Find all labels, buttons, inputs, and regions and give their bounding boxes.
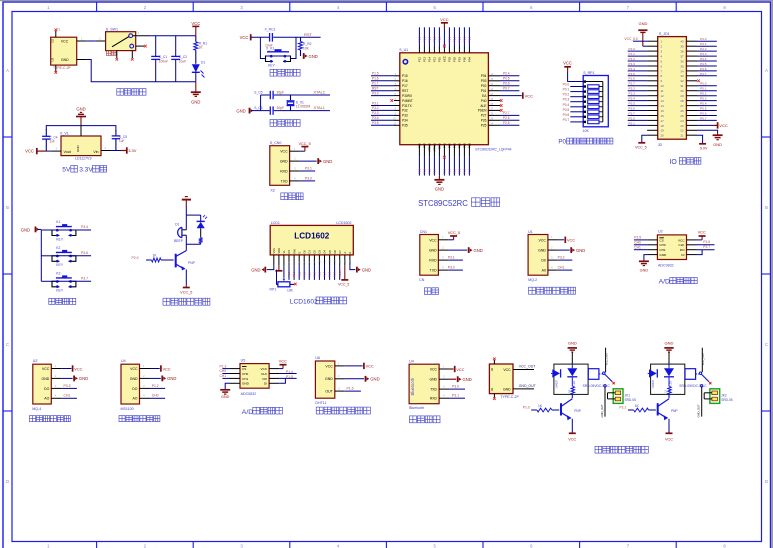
svg-text:GND: GND (576, 248, 585, 253)
regulator GND pin to rail (80, 126, 82, 136)
svg-text:P33: P33 (402, 114, 408, 118)
svg-text:RP1: RP1 (270, 288, 277, 292)
relay coil resistor JK1 (568, 387, 575, 395)
ground GND IO right (713, 134, 723, 147)
module label IO拓展口 (670, 158, 701, 166)
DHT11 pin stubs (335, 361, 345, 391)
svg-text:P1.2: P1.2 (463, 36, 467, 42)
svg-text:P5.6: P5.6 (700, 111, 707, 115)
svg-text:RST: RST (402, 89, 408, 93)
crystal S_X1 (287, 95, 311, 111)
svg-text:P5.1: P5.1 (700, 87, 707, 91)
wire methane GND (61, 377, 72, 379)
wire right drop to key (290, 37, 296, 58)
capacitor C_C4 (42, 129, 58, 151)
svg-text:P16: P16 (402, 79, 408, 83)
wire GND net bottom rail (77, 60, 196, 82)
ground GND download (318, 158, 332, 164)
svg-text:P0.7: P0.7 (503, 87, 510, 91)
svg-text:29: 29 (680, 94, 684, 98)
wire methane AO (61, 394, 77, 399)
svg-text:P1.2: P1.2 (433, 36, 437, 42)
bluetooth pin stubs (439, 364, 450, 398)
push button K1 (41, 220, 91, 241)
wire alarm bottom node (186, 244, 200, 250)
svg-text:P5.5: P5.5 (700, 106, 707, 110)
svg-text:P1.2: P1.2 (448, 36, 452, 42)
LCD pin names and stubs (272, 248, 352, 266)
svg-text:P23: P23 (463, 143, 467, 148)
svg-text:KEY: KEY (56, 237, 64, 241)
svg-text:XTAL2: XTAL2 (314, 91, 325, 95)
wire J1 VCC to switch (77, 37, 106, 42)
relay coil resistor JK2 (665, 387, 672, 395)
svg-text:CH1: CH1 (220, 374, 227, 378)
svg-text:P2.0: P2.0 (453, 168, 457, 174)
svg-text:VCC: VCC (279, 359, 287, 363)
wire VCC to Vout (37, 147, 61, 152)
svg-text:P4.3: P4.3 (700, 52, 707, 56)
ground GND relay top JK2 (664, 341, 673, 365)
svg-text:D7: D7 (338, 250, 342, 254)
sensor U1 MQ-2 (528, 230, 548, 282)
svg-text:P02: P02 (481, 84, 487, 88)
ground GND LCD right (357, 267, 371, 273)
svg-text:P1.4: P1.4 (308, 271, 311, 277)
wire alarm trunk to buzzer (185, 215, 187, 230)
svg-text:P0.7: P0.7 (563, 118, 570, 122)
svg-text:P1.5: P1.5 (314, 271, 317, 277)
connector S_CN1 下载口 (270, 141, 290, 192)
svg-text:P00: P00 (463, 57, 467, 62)
svg-text:P0.3: P0.3 (563, 98, 570, 102)
svg-text:P37: P37 (423, 143, 427, 148)
MCU right pin stubs and names (478, 73, 500, 128)
wire coil to collector JK1 (571, 394, 573, 398)
module label LCD1602显示模块 (290, 297, 347, 306)
svg-text:RXD: RXD (430, 397, 438, 401)
svg-text:CH1: CH1 (634, 245, 641, 249)
svg-text:CH0: CH0 (659, 243, 665, 247)
svg-text:S_C6: S_C6 (254, 106, 262, 110)
svg-text:P5.2: P5.2 (700, 92, 707, 96)
wire row20 to VCC_5 bottom (635, 135, 647, 149)
svg-text:P2.6: P2.6 (503, 116, 510, 120)
svg-text:GND: GND (659, 253, 667, 257)
svg-text:P36: P36 (418, 143, 422, 148)
module label A/D转换电路 bottom (242, 407, 283, 416)
svg-text:VCC_5: VCC_5 (448, 231, 460, 235)
svg-text:P1.2: P1.2 (428, 36, 432, 42)
svg-text:XTAL1: XTAL1 (314, 106, 325, 110)
svg-text:P2.5: P2.5 (634, 236, 641, 240)
svg-text:U3: U3 (51, 57, 55, 61)
svg-text:P2.6: P2.6 (703, 240, 710, 244)
svg-text:10K: 10K (287, 289, 294, 293)
svg-text:CLK: CLK (261, 372, 268, 376)
module label 温湿度检测模块 (316, 407, 370, 414)
svg-text:17: 17 (661, 119, 665, 123)
svg-text:P3.1: P3.1 (372, 101, 379, 105)
svg-text:CH1: CH1 (558, 266, 565, 270)
svg-text:P2.5: P2.5 (503, 121, 510, 125)
wire crystal left link (260, 95, 262, 111)
svg-text:P3.7: P3.7 (629, 111, 636, 115)
svg-text:GND: GND (79, 376, 88, 381)
svg-text:VCC: VCC (430, 367, 438, 371)
svg-text:P01: P01 (481, 89, 487, 93)
svg-text:U3: U3 (33, 359, 38, 363)
connector CN1 serial (419, 230, 438, 282)
no-ERC marker top pin6 (443, 45, 446, 48)
transistor PNP relay JK1 (561, 399, 581, 421)
power port VCC_5 serial (448, 231, 460, 240)
svg-text:GND: GND (130, 377, 138, 381)
svg-text:U5: U5 (241, 358, 246, 362)
push button X_K1 (266, 46, 291, 67)
svg-text:U1: U1 (528, 230, 533, 234)
svg-text:16: 16 (661, 114, 665, 118)
svg-text:DO: DO (680, 248, 685, 252)
svg-text:P1.9: P1.9 (334, 271, 337, 277)
flyback diode 1N4007 JK1 (551, 369, 561, 388)
power port +3.3V (121, 147, 137, 153)
wire row19 to GND (697, 130, 718, 133)
svg-text:P14: P14 (428, 57, 432, 62)
svg-text:DO: DO (44, 387, 50, 391)
svg-text:VCC: VCC (61, 39, 69, 43)
svg-text:S_SW1: S_SW1 (106, 27, 118, 31)
svg-text:A/D: A/D (659, 279, 670, 286)
power port VCC relay JK2 (665, 419, 673, 442)
svg-text:GND: GND (639, 21, 648, 26)
svg-text:C: C (765, 342, 768, 347)
svg-text:P1.2: P1.2 (629, 57, 636, 61)
ground GND top of IO (638, 21, 647, 46)
svg-text:GND_OUT: GND_OUT (697, 404, 701, 417)
svg-text:Bluetooth: Bluetooth (409, 406, 424, 410)
svg-text:RXD: RXD (280, 169, 288, 173)
ground GND below MCU (434, 176, 444, 192)
svg-text:VCC_OUT: VCC_OUT (604, 352, 608, 365)
svg-text:VCC: VCC (130, 367, 138, 371)
svg-text:VCC_OUT: VCC_OUT (519, 365, 537, 369)
switch contacts and lever (112, 34, 134, 48)
buzzer BD1 BEEP (174, 222, 186, 243)
svg-text:P3.1: P3.1 (305, 166, 312, 170)
svg-text:VCC: VCC (539, 238, 547, 242)
svg-text:VCC_5: VCC_5 (299, 142, 311, 146)
wire RXD pin3 (300, 166, 315, 171)
LCD pin1 to GND left (267, 266, 274, 270)
wire formaldehyde AO (150, 394, 166, 399)
svg-text:U4: U4 (121, 359, 126, 363)
ADC bottom input wires (220, 364, 231, 378)
wire serial RXD (448, 256, 463, 261)
wire serial TXD (448, 266, 463, 271)
module label 复位电路 (270, 69, 300, 76)
svg-text:VCC: VCC (698, 231, 706, 235)
wire ADC right DO (697, 245, 715, 250)
svg-text:C: C (6, 342, 9, 347)
svg-text:VSS: VSS (272, 248, 276, 253)
wire smoke GND (558, 249, 570, 251)
svg-text:P4.4: P4.4 (700, 57, 707, 61)
module label 串口 (424, 288, 438, 295)
svg-text:C_C1: C_C1 (159, 55, 168, 59)
connector J1 TYPE-C-2P (power input) (51, 37, 77, 70)
LCD pin16 to GND right (350, 266, 356, 270)
svg-text:GND: GND (713, 142, 722, 147)
svg-text:D6: D6 (333, 250, 337, 254)
svg-text:GND: GND (76, 106, 85, 111)
svg-text:P1.8: P1.8 (329, 271, 332, 277)
svg-text:P1.0: P1.0 (629, 47, 636, 51)
ground GND below power circuit (191, 82, 201, 105)
no-ERC marker bottom pin6 (443, 156, 446, 159)
svg-text:P41: P41 (443, 143, 447, 148)
switch S_SW1 label 开关 (106, 51, 116, 56)
wire K2 output P3.6 (81, 251, 88, 255)
svg-text:TYPE-C-2P: TYPE-C-2P (501, 395, 520, 399)
power port VCC top of MCU (440, 17, 449, 47)
svg-text:E: E (297, 252, 301, 254)
svg-text:P0.5: P0.5 (503, 77, 510, 81)
connector TYPE-C-2P relay (489, 364, 519, 399)
svg-text:KEY: KEY (268, 64, 276, 68)
svg-text:LCD1602: LCD1602 (294, 232, 329, 241)
svg-text:32: 32 (680, 79, 684, 83)
svg-text:STC89C52RC_LQFP44: STC89C52RC_LQFP44 (475, 148, 511, 152)
ground GND crystal (236, 108, 253, 114)
svg-text:1N4007: 1N4007 (555, 380, 558, 389)
svg-text:P2.0: P2.0 (443, 168, 447, 174)
module label 晶振电路 (270, 120, 300, 127)
svg-text:GND: GND (503, 387, 511, 391)
svg-text:D5: D5 (328, 250, 332, 254)
svg-text:P1.2: P1.2 (458, 36, 462, 42)
svg-text:GND: GND (61, 58, 69, 62)
module label 声光报警电路 (163, 298, 210, 305)
svg-text:P22: P22 (458, 143, 462, 148)
wire bluetooth GND (450, 378, 457, 380)
svg-text:P24: P24 (468, 143, 472, 148)
svg-text:P26: P26 (481, 119, 487, 123)
power port VCC relay JK1 (568, 419, 576, 442)
svg-text:GND: GND (568, 341, 577, 346)
svg-text:P11: P11 (433, 57, 437, 62)
push button K3 (41, 271, 91, 292)
svg-text:5V: 5V (62, 167, 71, 174)
svg-text:ALE: ALE (480, 104, 486, 108)
ground GND serial (469, 247, 483, 253)
svg-text:11: 11 (661, 89, 664, 93)
svg-text:35: 35 (680, 64, 684, 68)
ground GND LCD left (251, 267, 265, 273)
svg-text:ADC0832: ADC0832 (658, 264, 674, 268)
capacitor S_C6 30pF lower (254, 106, 284, 115)
svg-text:14: 14 (661, 104, 665, 108)
svg-text:P2.0: P2.0 (132, 256, 139, 260)
wire smoke A0 (558, 266, 573, 271)
wire ADC right CLK (697, 240, 715, 245)
module label 5V转3.3V电路 (62, 166, 106, 174)
svg-text:RST: RST (372, 87, 378, 91)
IO left wires and net labels (628, 47, 647, 125)
svg-text:VCC: VCC (25, 149, 34, 154)
svg-text:DO: DO (132, 387, 138, 391)
svg-text:P3.3: P3.3 (372, 111, 379, 115)
net label XTAL2 (314, 91, 325, 95)
svg-text:LD1117V3: LD1117V3 (75, 157, 91, 161)
svg-text:39: 39 (680, 45, 684, 49)
svg-text:P12: P12 (418, 57, 422, 62)
power port VCC smoke (558, 237, 576, 243)
module label 按键电路 (49, 298, 76, 304)
svg-text:P3.1: P3.1 (452, 394, 459, 398)
ground GND keys (21, 227, 40, 233)
relay switch JK1 (588, 348, 612, 418)
ground GND smoke (571, 247, 585, 253)
svg-text:30pF: 30pF (277, 106, 285, 110)
svg-text:VCC: VCC (163, 367, 171, 371)
svg-text:P32: P32 (402, 109, 408, 113)
svg-text:X_V1: X_V1 (60, 131, 69, 135)
svg-text:K3: K3 (56, 271, 60, 275)
svg-text:P1.5: P1.5 (372, 72, 379, 76)
svg-text:P1.1: P1.1 (629, 52, 636, 56)
power port VCC ADC bottom (279, 359, 287, 368)
potentiometer RP1 (270, 270, 295, 293)
wire ADC bottom DI (279, 378, 285, 383)
svg-text:30pF: 30pF (277, 90, 285, 94)
LCD pin2 VCC down (275, 266, 282, 271)
svg-text:P1.6: P1.6 (629, 77, 636, 81)
wire methane DO (61, 384, 77, 389)
svg-text:P2.0: P2.0 (433, 168, 437, 174)
svg-text:10uF: 10uF (179, 60, 187, 64)
svg-text:D2: D2 (313, 250, 317, 254)
svg-text:GND: GND (251, 267, 260, 272)
svg-text:VDD: VDD (277, 248, 281, 254)
MCU pin1 marker (403, 60, 407, 64)
relay output connector JK1 (608, 389, 637, 404)
flyback diode 1N4007 JK2 (648, 369, 658, 388)
pin bottom of J1 (55, 65, 57, 71)
svg-text:K: K (348, 252, 352, 254)
svg-text:D: D (765, 479, 768, 484)
MCU bottom pin stubs wires and names (418, 143, 472, 176)
svg-text:S_JD1: S_JD1 (659, 32, 670, 36)
capacitor S_C5 30pF upper (254, 90, 284, 99)
svg-text:DI: DI (681, 253, 684, 257)
svg-text:1N4007: 1N4007 (652, 380, 655, 389)
svg-text:GND: GND (76, 145, 80, 153)
svg-text:P1.2: P1.2 (423, 36, 427, 42)
net label RST (304, 32, 313, 37)
LCD1602 module body (270, 221, 353, 255)
power port VCC left (25, 148, 37, 154)
relay output connector JK2 (704, 389, 733, 404)
no-ERC marker bottom of J1 (55, 71, 58, 74)
no-ERC marker top of J1 (55, 29, 58, 32)
svg-text:P1.5: P1.5 (286, 375, 293, 379)
svg-text:OUT: OUT (325, 390, 333, 394)
svg-text:P3.0: P3.0 (305, 176, 312, 180)
svg-text:VCC: VCC (567, 239, 575, 243)
svg-text:15: 15 (661, 109, 665, 113)
svg-text:P3.4: P3.4 (629, 97, 636, 101)
svg-text:P1.2: P1.2 (152, 384, 159, 388)
svg-text:GND: GND (221, 395, 230, 399)
svg-text:LCD1602: LCD1602 (290, 299, 318, 306)
ground GND ADC bottom (220, 383, 230, 399)
svg-text:P2.0: P2.0 (418, 168, 422, 174)
svg-text:S_U1: S_U1 (399, 48, 408, 52)
svg-text:VCC: VCC (443, 56, 447, 62)
svg-text:SRD-05: SRD-05 (721, 398, 733, 402)
module label 烟雾检测模块 (529, 287, 576, 294)
svg-text:P10: P10 (438, 57, 442, 62)
capacitor C_C1 (151, 36, 168, 82)
svg-text:KEY: KEY (56, 289, 64, 293)
svg-text:P3.5: P3.5 (372, 121, 379, 125)
svg-text:26: 26 (680, 109, 684, 113)
svg-text:P15: P15 (402, 74, 408, 78)
LCD data pin wires (288, 266, 342, 280)
svg-text:TXD: TXD (430, 269, 437, 273)
module label 电源电路 (117, 89, 146, 96)
wire top rail of regulator (46, 126, 116, 131)
MCU left pin stubs and names (393, 73, 413, 128)
capacitor C_C2 (171, 36, 187, 82)
svg-text:AO: AO (44, 397, 49, 401)
svg-text:XTAL2: XTAL2 (428, 143, 432, 152)
svg-text:STC89C52RC: STC89C52RC (418, 199, 468, 208)
svg-text:P0.4: P0.4 (563, 103, 570, 107)
svg-text:P5.3: P5.3 (700, 97, 707, 101)
svg-text:VCC: VCC (503, 368, 511, 372)
svg-text:VCC_5: VCC_5 (635, 146, 647, 150)
resistor network S_RP1 body (583, 71, 609, 133)
LCD pin3 to potentiometer (283, 266, 286, 282)
svg-text:DHT11: DHT11 (315, 401, 326, 405)
svg-text:C_C2: C_C2 (179, 55, 188, 59)
svg-text:P4.6: P4.6 (700, 67, 707, 71)
svg-text:PNP: PNP (188, 261, 196, 265)
wire switch out to VCC rail (133, 31, 196, 36)
svg-text:Vout: Vout (64, 150, 71, 154)
svg-text:P1.3: P1.3 (220, 364, 227, 368)
ground GND bluetooth (458, 376, 472, 382)
svg-text:LCD1602: LCD1602 (336, 221, 351, 225)
svg-text:P2.0: P2.0 (629, 116, 636, 120)
svg-text:P3.4: P3.4 (372, 116, 379, 120)
svg-text:P04: P04 (481, 74, 487, 78)
module label 蓝牙模块 (410, 416, 441, 423)
svg-text:XTAL1: XTAL1 (433, 143, 437, 152)
svg-text:23: 23 (680, 124, 684, 128)
wire smoke D0 (558, 256, 573, 261)
svg-text:3.3V: 3.3V (128, 148, 137, 153)
svg-text:VCC: VCC (525, 93, 534, 98)
ground GND ADC right (639, 255, 649, 273)
svg-text:D0: D0 (302, 250, 306, 254)
svg-text:P40: P40 (481, 99, 487, 103)
svg-text:GND: GND (323, 159, 332, 164)
svg-text:38: 38 (680, 50, 684, 54)
svg-text:DI: DI (264, 382, 267, 386)
